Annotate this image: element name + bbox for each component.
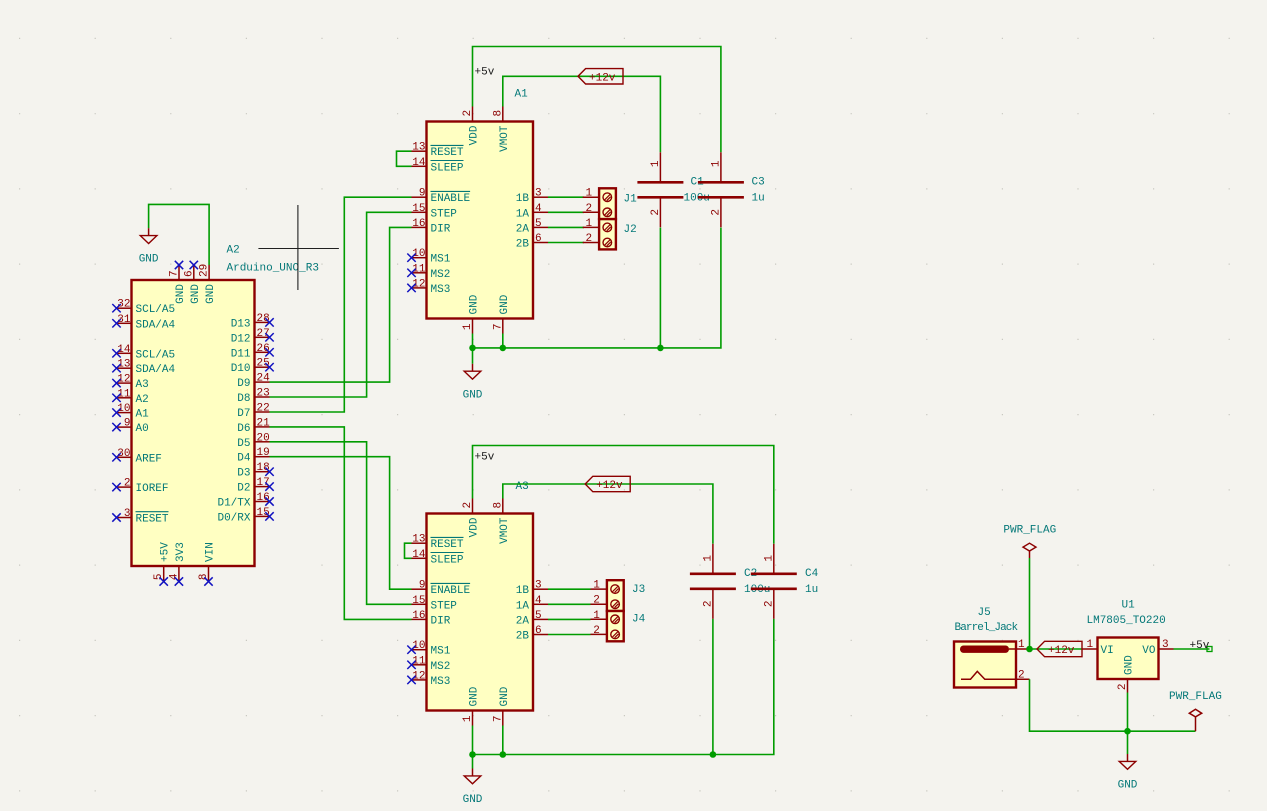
svg-text:+12v: +12v xyxy=(1048,645,1075,657)
wire J5 pin2 to GND rail xyxy=(1030,679,1196,731)
junction at J5 pin1 xyxy=(1026,646,1033,653)
svg-text:A2: A2 xyxy=(136,394,149,406)
svg-text:GND: GND xyxy=(139,254,159,266)
svg-text:1: 1 xyxy=(462,715,474,722)
svg-text:LM7805_TO220: LM7805_TO220 xyxy=(1087,615,1166,627)
svg-text:AREF: AREF xyxy=(136,453,162,465)
svg-text:MS1: MS1 xyxy=(431,646,451,658)
svg-text:2B: 2B xyxy=(516,631,530,643)
svg-text:+5V: +5V xyxy=(160,542,172,562)
svg-text:RESET: RESET xyxy=(136,514,169,526)
svg-text:18: 18 xyxy=(257,462,270,474)
svg-text:9: 9 xyxy=(419,188,426,200)
svg-text:5: 5 xyxy=(535,610,542,622)
svg-text:8: 8 xyxy=(198,574,210,581)
wire U1 VO to +5v xyxy=(1174,648,1210,650)
svg-text:J4: J4 xyxy=(632,614,646,626)
svg-text:Barrel_Jack: Barrel_Jack xyxy=(955,622,1019,634)
svg-text:2: 2 xyxy=(763,601,775,608)
wire A3 2A to J3/J4 xyxy=(548,618,591,620)
svg-text:3: 3 xyxy=(535,188,542,200)
svg-text:1: 1 xyxy=(702,555,714,562)
wire PWR_FLAG to +12v node xyxy=(1029,558,1031,649)
junction at A3 GND pin1 xyxy=(469,751,476,758)
svg-text:7: 7 xyxy=(492,324,504,331)
svg-text:7: 7 xyxy=(169,270,181,277)
wire A3 rail to ground symbol xyxy=(472,755,474,769)
svg-text:ENABLE: ENABLE xyxy=(431,585,471,597)
svg-text:7: 7 xyxy=(492,716,504,723)
svg-text:A1: A1 xyxy=(515,89,529,101)
svg-text:1: 1 xyxy=(1018,639,1025,651)
screw terminal connectors J3 and J4 xyxy=(607,580,624,611)
svg-text:GND: GND xyxy=(175,284,187,304)
svg-text:1: 1 xyxy=(462,323,474,330)
svg-text:J3: J3 xyxy=(632,584,645,596)
svg-text:13: 13 xyxy=(412,534,425,546)
svg-text:A0: A0 xyxy=(136,423,149,435)
svg-text:16: 16 xyxy=(412,218,425,230)
stepper driver module A1 xyxy=(427,122,534,319)
editor crosshair cursor xyxy=(258,205,339,290)
svg-text:1: 1 xyxy=(593,580,600,592)
svg-text:2: 2 xyxy=(585,233,592,245)
svg-text:26: 26 xyxy=(257,343,270,355)
svg-text:GND: GND xyxy=(190,284,202,304)
svg-text:SDA/A4: SDA/A4 xyxy=(136,364,176,376)
dangling wire end square xyxy=(1207,647,1212,652)
svg-text:GND: GND xyxy=(469,686,481,706)
svg-text:1u: 1u xyxy=(805,584,818,596)
svg-text:J5: J5 xyxy=(978,607,991,619)
svg-text:28: 28 xyxy=(257,313,270,325)
svg-text:13: 13 xyxy=(412,142,425,154)
voltage regulator U1 LM7805 xyxy=(1083,638,1174,693)
svg-text:21: 21 xyxy=(257,417,271,429)
svg-text:9: 9 xyxy=(124,418,131,430)
svg-text:6: 6 xyxy=(183,270,195,277)
svg-text:D4: D4 xyxy=(237,453,251,465)
wire +5v rail bottom (A3 VDD to C4 pin1) xyxy=(473,446,774,544)
svg-text:+5v: +5v xyxy=(475,452,495,464)
svg-text:MS2: MS2 xyxy=(431,661,451,673)
svg-text:GND: GND xyxy=(499,294,511,314)
svg-text:A3: A3 xyxy=(516,481,529,493)
svg-text:GND: GND xyxy=(463,794,483,806)
wire D4 to A3 ENABLE xyxy=(270,457,412,590)
svg-text:VO: VO xyxy=(1142,645,1156,657)
wire C2 pin2 to GND rail xyxy=(712,619,714,755)
svg-text:PWR_FLAG: PWR_FLAG xyxy=(1169,691,1222,703)
svg-text:GND: GND xyxy=(1118,780,1138,792)
svg-text:19: 19 xyxy=(257,447,270,459)
svg-text:2A: 2A xyxy=(516,615,530,627)
capacitor C1 100u xyxy=(659,152,661,182)
power flag symbol (top) xyxy=(1023,543,1036,558)
svg-text:GND: GND xyxy=(469,294,481,314)
svg-text:D2: D2 xyxy=(237,483,250,495)
wire A3 RESET-SLEEP loop xyxy=(405,543,412,558)
svg-text:14: 14 xyxy=(412,157,426,169)
barrel jack connector J5 xyxy=(954,639,1030,688)
svg-text:D0/RX: D0/RX xyxy=(217,512,250,524)
svg-text:1: 1 xyxy=(593,610,600,622)
svg-text:2A: 2A xyxy=(516,223,530,235)
ground symbol at A2 top xyxy=(139,228,159,266)
svg-text:A1: A1 xyxy=(136,409,150,421)
wire +12v (A1 VMOT to C1 pin1) xyxy=(503,76,661,152)
svg-text:1: 1 xyxy=(585,188,592,200)
junction at A1 GND pin7 xyxy=(500,345,507,352)
junction at A1 GND pin1 xyxy=(469,345,476,352)
svg-text:24: 24 xyxy=(257,373,271,385)
svg-text:3V3: 3V3 xyxy=(175,542,187,562)
svg-text:8: 8 xyxy=(492,110,504,117)
wire D9 to A1 DIR xyxy=(270,227,412,382)
svg-text:D8: D8 xyxy=(237,393,250,405)
wire A1 2A to J1/J2 xyxy=(548,226,584,228)
svg-text:GND: GND xyxy=(463,389,483,401)
svg-text:2: 2 xyxy=(702,601,714,608)
svg-text:D12: D12 xyxy=(231,333,251,345)
global label +12v (right) xyxy=(1037,641,1082,657)
svg-text:2: 2 xyxy=(124,478,131,490)
junction at A3 GND pin7 xyxy=(500,751,507,758)
wire D8 to A1 STEP xyxy=(270,212,412,397)
wire GND rail bottom section xyxy=(473,619,774,755)
svg-text:1A: 1A xyxy=(516,600,530,612)
svg-text:6: 6 xyxy=(535,233,542,245)
wire A3 1A to J3/J4 xyxy=(548,603,591,605)
svg-text:U1: U1 xyxy=(1122,600,1136,612)
wire A1 GND pin7 down xyxy=(502,334,504,348)
svg-text:Arduino_UNO_R3: Arduino_UNO_R3 xyxy=(227,263,319,275)
svg-text:29: 29 xyxy=(199,264,211,277)
svg-text:3: 3 xyxy=(124,508,131,520)
svg-text:DIR: DIR xyxy=(431,615,451,627)
svg-text:GND: GND xyxy=(1124,655,1136,675)
svg-text:16: 16 xyxy=(257,492,270,504)
svg-text:+5v: +5v xyxy=(475,67,495,79)
svg-text:2: 2 xyxy=(1117,684,1129,691)
wire +12v bottom (A3 VMOT to C2 pin1) xyxy=(503,484,713,544)
junction at C2 on GND rail xyxy=(710,751,717,758)
svg-text:6: 6 xyxy=(535,625,542,637)
svg-text:4: 4 xyxy=(535,203,542,215)
svg-text:SLEEP: SLEEP xyxy=(431,162,464,174)
svg-text:15: 15 xyxy=(257,507,270,519)
svg-text:4: 4 xyxy=(535,595,542,607)
svg-text:STEP: STEP xyxy=(431,600,458,612)
svg-text:5: 5 xyxy=(535,218,542,230)
svg-text:5: 5 xyxy=(153,574,165,581)
svg-text:14: 14 xyxy=(412,549,426,561)
svg-text:+12v: +12v xyxy=(596,480,623,492)
svg-text:2: 2 xyxy=(462,110,474,117)
svg-text:VDD: VDD xyxy=(469,517,481,537)
svg-text:IOREF: IOREF xyxy=(136,483,169,495)
svg-text:2: 2 xyxy=(710,209,722,216)
wire A2 pin29 to GND xyxy=(149,204,210,265)
capacitor C4 1u xyxy=(773,544,775,574)
ground symbol bottom right xyxy=(1118,754,1138,792)
svg-text:VMOT: VMOT xyxy=(499,517,511,544)
wire A3 GND pin7 down xyxy=(502,726,504,755)
svg-text:MS3: MS3 xyxy=(431,676,451,688)
svg-text:VIN: VIN xyxy=(205,542,217,562)
svg-text:20: 20 xyxy=(257,432,270,444)
svg-text:15: 15 xyxy=(412,203,425,215)
svg-text:17: 17 xyxy=(257,477,270,489)
svg-text:2: 2 xyxy=(1018,669,1025,681)
svg-text:SLEEP: SLEEP xyxy=(431,554,464,566)
svg-text:1B: 1B xyxy=(516,585,530,597)
svg-text:MS1: MS1 xyxy=(431,254,451,266)
wire GND rail top section xyxy=(473,228,721,348)
svg-text:1: 1 xyxy=(710,160,722,167)
svg-text:VMOT: VMOT xyxy=(499,125,511,152)
svg-text:8: 8 xyxy=(492,502,504,509)
svg-text:D1/TX: D1/TX xyxy=(217,498,250,510)
wire U1 GND pin2 down xyxy=(1127,693,1129,732)
svg-text:3: 3 xyxy=(1162,639,1169,651)
svg-text:D11: D11 xyxy=(231,348,251,360)
global label +12v (top) xyxy=(578,69,623,85)
svg-text:16: 16 xyxy=(412,610,425,622)
svg-text:2: 2 xyxy=(593,625,600,637)
svg-text:+12v: +12v xyxy=(589,72,616,84)
svg-text:VI: VI xyxy=(1101,645,1114,657)
svg-text:1: 1 xyxy=(763,555,775,562)
wire A1 RESET-SLEEP loop xyxy=(397,151,412,166)
svg-text:2: 2 xyxy=(593,595,600,607)
capacitor C3 1u xyxy=(720,152,722,182)
ground symbol below A1 xyxy=(463,364,483,402)
svg-text:C4: C4 xyxy=(805,568,819,580)
no-connect X marks on A2 pins xyxy=(112,261,273,586)
svg-text:D13: D13 xyxy=(231,318,251,330)
svg-text:1A: 1A xyxy=(516,208,530,220)
wire A1 rail to ground symbol xyxy=(472,348,474,364)
wire A1 1A to J1/J2 xyxy=(548,211,584,213)
wire A3 1B to J3/J4 xyxy=(548,588,591,590)
wire A1 1B to J1/J2 xyxy=(548,196,584,198)
wire D6 to A3 DIR xyxy=(270,427,412,620)
svg-text:1u: 1u xyxy=(752,193,765,205)
svg-text:D10: D10 xyxy=(231,363,251,375)
svg-text:D5: D5 xyxy=(237,438,250,450)
svg-text:STEP: STEP xyxy=(431,208,458,220)
svg-text:RESET: RESET xyxy=(431,539,464,551)
svg-text:A2: A2 xyxy=(227,245,240,257)
wire A3 GND pin1 down xyxy=(472,726,474,755)
svg-text:A3: A3 xyxy=(136,379,149,391)
svg-text:D7: D7 xyxy=(237,408,250,420)
wire A3 2B to J3/J4 xyxy=(548,634,591,636)
junction at C1 on GND rail xyxy=(657,345,664,352)
svg-text:2: 2 xyxy=(585,203,592,215)
svg-text:RESET: RESET xyxy=(431,147,464,159)
svg-text:DIR: DIR xyxy=(431,223,451,235)
svg-text:SCL/A5: SCL/A5 xyxy=(136,349,176,361)
svg-text:1: 1 xyxy=(585,218,592,230)
svg-text:MS3: MS3 xyxy=(431,284,451,296)
svg-text:+5v: +5v xyxy=(1190,640,1210,652)
global label +12v (bottom) xyxy=(585,476,630,492)
svg-text:SCL/A5: SCL/A5 xyxy=(136,304,176,316)
svg-text:15: 15 xyxy=(412,595,425,607)
svg-text:GND: GND xyxy=(499,686,511,706)
stepper driver module A3 xyxy=(427,514,534,711)
svg-text:J1: J1 xyxy=(624,194,638,206)
wire A1 GND pin1 down xyxy=(472,334,474,348)
svg-text:C3: C3 xyxy=(752,177,765,189)
svg-text:VDD: VDD xyxy=(469,125,481,145)
svg-text:2: 2 xyxy=(462,502,474,509)
wire C1 pin2 to GND rail xyxy=(659,228,661,348)
svg-text:23: 23 xyxy=(257,388,270,400)
wire J5 pin1 to U1 VI xyxy=(1030,648,1083,650)
Arduino UNO R3 module A2 xyxy=(117,264,271,582)
svg-text:3: 3 xyxy=(535,580,542,592)
svg-text:SDA/A4: SDA/A4 xyxy=(136,319,176,331)
ground symbol below A3 xyxy=(463,769,483,807)
svg-text:22: 22 xyxy=(257,403,270,415)
wire D7 to A1 ENABLE xyxy=(270,197,412,412)
svg-text:PWR_FLAG: PWR_FLAG xyxy=(1003,524,1056,536)
svg-text:ENABLE: ENABLE xyxy=(431,193,471,205)
screw terminal connectors J1 and J2 xyxy=(599,188,616,219)
wire GND rail to ground symbol xyxy=(1127,731,1129,754)
svg-text:MS2: MS2 xyxy=(431,269,451,281)
svg-text:27: 27 xyxy=(257,328,270,340)
wire +5v rail top (A1 VDD to C3 pin1) xyxy=(473,47,721,153)
wire A1 2B to J1/J2 xyxy=(548,242,584,244)
junction at U1 GND on rail xyxy=(1124,728,1131,735)
power flag symbol (bottom right) xyxy=(1189,709,1201,731)
svg-text:D3: D3 xyxy=(237,468,250,480)
svg-text:9: 9 xyxy=(419,580,426,592)
svg-text:D9: D9 xyxy=(237,378,250,390)
svg-text:1: 1 xyxy=(1087,639,1094,651)
svg-text:D6: D6 xyxy=(237,423,250,435)
svg-text:J2: J2 xyxy=(624,224,637,236)
svg-text:GND: GND xyxy=(205,284,217,304)
svg-text:4: 4 xyxy=(168,573,180,580)
svg-text:25: 25 xyxy=(257,358,270,370)
wire D5 to A3 STEP xyxy=(270,442,412,605)
svg-text:2B: 2B xyxy=(516,239,530,251)
svg-text:1: 1 xyxy=(650,160,662,167)
svg-text:2: 2 xyxy=(650,209,662,216)
svg-text:1B: 1B xyxy=(516,193,530,205)
capacitor C2 100u xyxy=(712,544,714,574)
